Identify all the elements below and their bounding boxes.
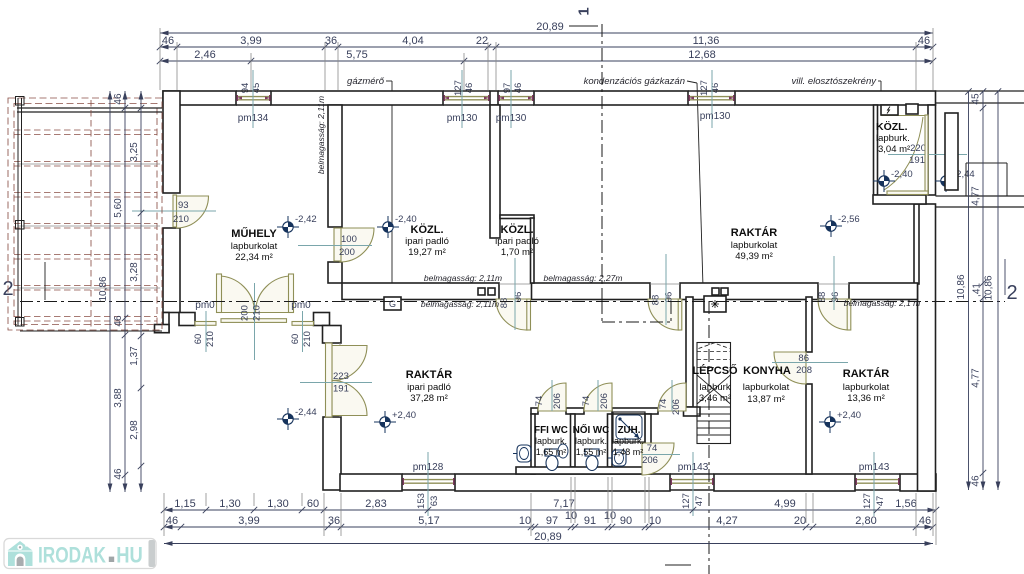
svg-text:lapburkolat: lapburkolat (843, 382, 890, 393)
svg-text:49,39 m²: 49,39 m² (735, 251, 773, 262)
east inner wall upper (914, 204, 919, 284)
room zuh (612, 425, 644, 457)
svg-text:210: 210 (252, 305, 263, 321)
door lobby (658, 380, 686, 415)
svg-text:lapburk: lapburk (699, 382, 730, 393)
room lepcso (692, 364, 738, 404)
door kozl3 191-220 (884, 117, 967, 190)
svg-text:22: 22 (476, 35, 488, 47)
svg-text:5,17: 5,17 (418, 515, 439, 527)
neighbor top wall lines (936, 91, 1024, 103)
svg-text:223: 223 (333, 371, 349, 382)
svg-text:1,70 m²: 1,70 m² (501, 247, 533, 258)
marker +2,40 low a (374, 410, 416, 433)
svg-text:+2,40: +2,40 (392, 410, 416, 421)
svg-text:gázmérő: gázmérő (347, 76, 385, 87)
svg-text:3,99: 3,99 (238, 515, 259, 527)
svg-text:60: 60 (193, 334, 204, 345)
left dim line 10,86 (98, 91, 112, 492)
svg-text:208: 208 (796, 365, 812, 376)
svg-text:lapburk.: lapburk. (612, 436, 644, 446)
basin zuh (608, 450, 626, 466)
marker -2,40 kozl3 (873, 169, 913, 192)
svg-text:74: 74 (581, 396, 592, 407)
svg-text:G: G (389, 299, 396, 309)
svg-text:5,75: 5,75 (346, 49, 367, 61)
neighbor band wall (936, 196, 1024, 207)
svg-text:46: 46 (113, 468, 124, 480)
double door 223-191 raktar west (300, 343, 372, 417)
section line 1 lower (665, 301, 709, 574)
basin ffi east (558, 444, 568, 458)
bottom dim row 3 (164, 531, 933, 546)
middle wall band (342, 283, 918, 300)
svg-text:2,83: 2,83 (365, 498, 386, 510)
konyha-raktar13 wall (806, 297, 812, 474)
svg-text:4,99: 4,99 (774, 498, 795, 510)
svg-text:127: 127 (699, 80, 710, 96)
stairs (697, 343, 731, 444)
window pm143 b (855, 452, 900, 516)
svg-text:220: 220 (910, 143, 926, 154)
window pm128 (402, 452, 455, 516)
svg-text:10,86: 10,86 (956, 274, 967, 299)
svg-text:KÖZL.: KÖZL. (876, 120, 908, 133)
bottom dim row 2 (161, 510, 936, 530)
shower zuh (613, 412, 645, 442)
svg-text:20,89: 20,89 (536, 21, 564, 33)
svg-text:46: 46 (113, 315, 124, 327)
svg-text:13,87 m²: 13,87 m² (747, 394, 785, 405)
svg-text:lapburk.: lapburk. (535, 436, 567, 446)
small squares kozl170 (478, 288, 495, 295)
svg-text:1,48 m²: 1,48 m² (613, 447, 644, 457)
wc walls (516, 414, 651, 474)
dimension row B top (157, 35, 936, 50)
urinal ffi (513, 445, 531, 462)
svg-text:100: 100 (341, 234, 357, 245)
door D1 88-96 (496, 258, 531, 330)
door D3 88-96 (817, 256, 851, 330)
section mark 1 top (569, 7, 598, 26)
svg-text:20: 20 (794, 515, 806, 527)
svg-text:60: 60 (290, 334, 301, 345)
window pm130 c (688, 70, 735, 128)
marker -2,44 low (277, 407, 317, 430)
muhely south wall (155, 313, 330, 333)
svg-text:88: 88 (817, 292, 828, 303)
svg-text:10: 10 (604, 510, 616, 522)
svg-text:3,99: 3,99 (240, 35, 261, 47)
svg-text:63: 63 (429, 496, 440, 507)
svg-text:200: 200 (240, 305, 251, 321)
svg-text:4,77: 4,77 (971, 186, 982, 206)
svg-text:HU: HU (116, 542, 143, 567)
svg-text:-2,56: -2,56 (838, 214, 860, 225)
room noi wc (573, 424, 609, 457)
double door pm0 200-210 (193, 274, 313, 360)
svg-text:lapburkolat: lapburkolat (731, 240, 778, 251)
svg-text:2,98: 2,98 (129, 420, 140, 440)
svg-text:belmagasság: 2,1 m: belmagasság: 2,1 m (844, 298, 921, 308)
svg-text:60: 60 (307, 498, 319, 510)
svg-text:46: 46 (971, 475, 982, 487)
svg-text:1,30: 1,30 (219, 498, 240, 510)
svg-text:-2,40: -2,40 (395, 214, 417, 225)
bottom right extension (935, 492, 937, 545)
svg-text:5,60: 5,60 (113, 198, 124, 218)
terrace rafters (14, 130, 160, 321)
svg-text:pm143: pm143 (859, 462, 890, 473)
left dim line mid (113, 91, 128, 492)
svg-text:20,89: 20,89 (534, 531, 562, 543)
south wall (340, 474, 936, 491)
svg-text:12,68: 12,68 (688, 49, 716, 61)
svg-text:10: 10 (649, 515, 661, 527)
room raktar49 (731, 226, 778, 262)
marker -2,42 (277, 214, 317, 238)
svg-text:lapburk.: lapburk. (876, 133, 910, 144)
terrace dashed vline (90, 100, 92, 330)
svg-text:210: 210 (205, 331, 216, 347)
room konyha (743, 365, 791, 405)
room raktar37 (406, 368, 452, 404)
window labels top overlay (238, 111, 731, 124)
marker -2,56 (820, 214, 860, 237)
door zuh inner (642, 443, 680, 475)
svg-text:1,65 m²: 1,65 m² (536, 447, 567, 457)
svg-text:3,88: 3,88 (113, 388, 124, 408)
svg-text:36: 36 (328, 515, 340, 527)
interior wall muhely-kozl (328, 105, 342, 283)
svg-text:10,86: 10,86 (984, 275, 995, 300)
svg-text:KONYHA: KONYHA (743, 365, 791, 377)
svg-text:-2,44: -2,44 (295, 407, 317, 418)
svg-text:pm130: pm130 (700, 111, 731, 122)
svg-text:pm130: pm130 (496, 113, 527, 124)
dimension row C top (157, 49, 936, 64)
annotation kondenzacios gazkazan (584, 76, 706, 291)
marker -2,44 right (935, 169, 975, 192)
svg-text:,41: ,41 (972, 283, 983, 297)
svg-text:96: 96 (830, 292, 841, 303)
svg-text:88: 88 (651, 295, 662, 306)
door ffi wc (534, 380, 566, 411)
svg-text:-2,42: -2,42 (295, 214, 317, 225)
svg-text:3,28: 3,28 (129, 262, 140, 282)
svg-text:-2,40: -2,40 (891, 169, 913, 180)
svg-text:74: 74 (658, 399, 669, 410)
terrace dashed border (8, 98, 162, 330)
room kozl170 (495, 223, 539, 258)
dimension row total 20,89 top (160, 21, 933, 35)
svg-text:91: 91 (584, 515, 596, 527)
svg-text:RAKTÁR: RAKTÁR (731, 226, 777, 239)
svg-text:RAKTÁR: RAKTÁR (406, 368, 452, 381)
door noi wc (581, 380, 612, 411)
boiler box (704, 288, 728, 312)
svg-text:10,86: 10,86 (98, 276, 109, 301)
svg-text:13,36 m²: 13,36 m² (847, 393, 885, 404)
svg-text:IRODAK: IRODAK (38, 542, 107, 567)
svg-text:NŐI WC: NŐI WC (573, 424, 609, 436)
kozl170 thin walls (500, 215, 534, 283)
svg-text:206: 206 (642, 455, 658, 466)
svg-text:96: 96 (664, 292, 675, 303)
svg-text:2,46: 2,46 (194, 49, 215, 61)
svg-text:22,34 m²: 22,34 m² (235, 252, 273, 263)
right dim lines (956, 88, 1001, 490)
wc toilet noi (585, 449, 599, 471)
svg-text:74: 74 (534, 396, 545, 407)
svg-text:pm143: pm143 (678, 462, 709, 473)
svg-text:46: 46 (918, 35, 930, 47)
svg-text:+2,40: +2,40 (837, 410, 861, 421)
marker +2,40 low b (819, 410, 861, 433)
svg-text:RAKTÁR: RAKTÁR (843, 367, 889, 380)
svg-text:4,77: 4,77 (971, 368, 982, 388)
svg-text:4,27: 4,27 (716, 515, 737, 527)
svg-text:belmagasság: 2,11m: belmagasság: 2,11m (424, 273, 502, 283)
svg-text:3,25: 3,25 (129, 142, 140, 162)
svg-text:47: 47 (694, 496, 705, 507)
window pm130 b (498, 70, 534, 128)
pm0 sills (195, 319, 314, 326)
neighbor pillar (945, 113, 958, 190)
svg-text:19,27 m²: 19,27 m² (408, 247, 446, 258)
watermark irodak.hu (4, 539, 156, 569)
stair west wall (684, 297, 701, 416)
svg-text:36: 36 (325, 35, 337, 47)
svg-text:kondenzációs gázkazán: kondenzációs gázkazán (584, 76, 685, 87)
neighbor porch (966, 163, 1007, 196)
left dim line inner (129, 91, 144, 492)
window label 97-46 (502, 83, 524, 94)
svg-text:3,46 m²: 3,46 m² (699, 393, 731, 404)
svg-text:FFI WC: FFI WC (534, 425, 568, 436)
svg-text:210: 210 (302, 331, 313, 347)
svg-text:1,55 m²: 1,55 m² (576, 447, 607, 457)
kozl3 finish (881, 115, 928, 195)
svg-text:127: 127 (862, 493, 873, 509)
door 93-210 west wall (132, 195, 216, 228)
terrace stub line (44, 262, 46, 300)
svg-text:46: 46 (166, 515, 178, 527)
west wall (163, 91, 180, 313)
svg-text:lapburk.: lapburk. (575, 436, 607, 446)
svg-text:KÖZL.: KÖZL. (501, 223, 534, 236)
window pm143 a (670, 452, 714, 516)
svg-text:4,04: 4,04 (402, 35, 423, 47)
wc toilet ffi (545, 449, 559, 471)
terrace beam top (17, 108, 162, 112)
annotation vill elosztoszekreny (792, 76, 884, 103)
svg-text:46: 46 (162, 35, 174, 47)
svg-text:206: 206 (552, 393, 563, 409)
svg-text:206: 206 (599, 393, 610, 409)
svg-text:lapburkolat: lapburkolat (231, 241, 278, 252)
svg-text:90: 90 (620, 515, 632, 527)
belmagassag texts (316, 96, 920, 309)
bottom dim row 1 (161, 498, 939, 513)
svg-text:belmagasság: 2,27m: belmagasság: 2,27m (544, 273, 623, 283)
window label 127-46 a (453, 80, 475, 96)
gas meter box G (384, 297, 401, 310)
window pm134 (236, 70, 271, 128)
svg-text:191: 191 (909, 155, 925, 166)
center line horizontal (20, 301, 1005, 303)
svg-text:1,56: 1,56 (895, 498, 916, 510)
svg-text:7,17: 7,17 (553, 498, 574, 510)
svg-text:1: 1 (576, 7, 593, 15)
room kozl3 (876, 120, 910, 155)
annotation gazmero (347, 76, 394, 296)
section line 1 upper (602, 24, 671, 322)
bottom extension lines (164, 477, 933, 536)
room ffi wc (534, 425, 568, 457)
svg-text:210: 210 (173, 214, 189, 225)
svg-text:ZUH.: ZUH. (618, 425, 641, 436)
room muhely (231, 227, 278, 263)
svg-text:ipari padló: ipari padló (407, 382, 451, 393)
window label 127-46 b (699, 80, 721, 96)
svg-text:200: 200 (339, 247, 355, 258)
svg-text:127: 127 (681, 493, 692, 509)
window label 94-45 (240, 83, 262, 94)
svg-text:belmagasság: 2,11m: belmagasság: 2,11m (421, 299, 499, 309)
svg-text:ipari padló: ipari padló (405, 236, 449, 247)
svg-text:97: 97 (546, 515, 558, 527)
svg-text:pm130: pm130 (447, 113, 478, 124)
svg-text:pm128: pm128 (413, 462, 444, 473)
svg-text:37,28 m²: 37,28 m² (410, 393, 448, 404)
wc top wall (531, 408, 658, 414)
door 86-208 konyha (772, 352, 848, 384)
svg-text:93: 93 (178, 200, 189, 211)
svg-text:45: 45 (971, 93, 982, 105)
svg-text:MŰHELY: MŰHELY (231, 227, 277, 240)
top wall (163, 91, 936, 105)
svg-text:46: 46 (113, 93, 124, 105)
window pm130 a (443, 70, 490, 128)
svg-text:10: 10 (519, 515, 531, 527)
room kozl19 (405, 223, 449, 258)
svg-text:47: 47 (875, 496, 886, 507)
marker -2,40 a (377, 214, 417, 238)
terrace posts (16, 97, 25, 327)
svg-text:46: 46 (919, 515, 931, 527)
svg-text:1,30: 1,30 (267, 498, 288, 510)
terrace bottom line (20, 330, 162, 332)
top extension lines (160, 28, 933, 90)
door 100-200 muhely-kozl (298, 228, 374, 262)
svg-text:2: 2 (1006, 282, 1017, 304)
svg-text:74: 74 (647, 443, 658, 454)
svg-text:pm134: pm134 (238, 113, 269, 124)
svg-text:belmagasság: 2,11m: belmagasság: 2,11m (316, 96, 326, 174)
svg-text:206: 206 (671, 399, 682, 415)
door D2 88-96 (648, 254, 682, 330)
svg-text:1,15: 1,15 (174, 498, 195, 510)
raktar west wall (323, 326, 342, 491)
svg-text:vill. elosztószekrény: vill. elosztószekrény (792, 76, 878, 87)
svg-text:3,04 m²: 3,04 m² (878, 144, 910, 155)
kozl3 walls (873, 105, 926, 204)
elec boxes kozl3 (881, 104, 918, 115)
svg-text:ipari padló: ipari padló (495, 236, 539, 247)
east party wall (918, 105, 936, 491)
room raktar13 (843, 367, 890, 404)
wall kozl19-kozl170 (490, 105, 500, 238)
svg-text:88: 88 (499, 298, 510, 309)
svg-text:lapburkolat: lapburkolat (743, 382, 790, 393)
svg-text:153: 153 (416, 493, 427, 509)
svg-text:LÉPCSŐ: LÉPCSŐ (692, 364, 738, 377)
svg-text:2,80: 2,80 (855, 515, 876, 527)
right stub line (1004, 259, 1006, 295)
svg-text:191: 191 (333, 384, 349, 395)
svg-text:1,37: 1,37 (129, 346, 140, 366)
svg-text:11,36: 11,36 (693, 35, 720, 47)
